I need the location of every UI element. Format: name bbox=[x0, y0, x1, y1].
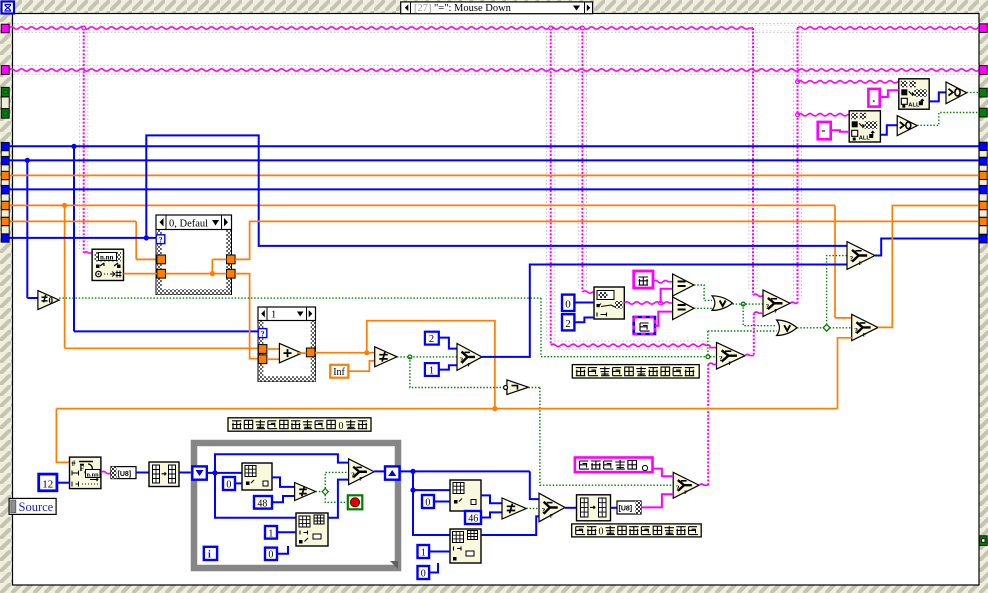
string constant WU (pink-bordered) bbox=[634, 271, 653, 288]
left edge tunnel: int (blue) y189 bbox=[1, 186, 9, 194]
left edge filler block 2 bbox=[1, 151, 9, 157]
case 0 right tunnel 2 (orange) bbox=[227, 269, 236, 278]
selection ants around vertical string wire x=83.7 bbox=[79, 32, 81, 249]
svg-text:46: 46 bbox=[468, 514, 478, 525]
numeric constant 0 (index) bbox=[223, 477, 235, 490]
wire: constant 0 to subset offset input bbox=[574, 302, 594, 304]
junction ring (707.9,356.7) branch up to OR U9 input bbox=[707, 331, 709, 357]
free label 'remove trailing zeros' above for-loop bbox=[228, 418, 371, 431]
case 0 left tunnel 1 (orange) bbox=[157, 255, 166, 264]
orange wire net y=221.4: left edge down into case structure 0 tunnel bbox=[9, 220, 136, 222]
case 0 right tunnel 1 (orange) bbox=[227, 255, 236, 264]
wire: U24 output to for-loop shift register bbox=[179, 472, 193, 474]
right edge tunnel: int y146 bbox=[979, 142, 987, 150]
Select node U11 bbox=[847, 242, 875, 270]
numeric constant 0 bbox=[422, 495, 434, 508]
left edge filler block 4 bbox=[1, 180, 9, 186]
Byte-Array-To-String node U34 bbox=[617, 501, 641, 514]
case 1 right tunnel (orange) bbox=[306, 348, 315, 357]
right edge tunnel: boolean out y92 bbox=[979, 88, 987, 97]
svg-text:1: 1 bbox=[429, 365, 434, 376]
wire: select U16 output up x=708.2 to select U10 bottom input bbox=[699, 484, 708, 485]
loop iteration terminal i bbox=[204, 547, 217, 560]
wire: constant 2 to subset length input bbox=[574, 318, 594, 323]
String-To-Byte-Array node U23 bbox=[111, 467, 136, 479]
numeric constant 0 (string subset offset) bbox=[562, 295, 574, 311]
svg-text:?: ? bbox=[766, 302, 770, 311]
wire: constant 0 to U32 bottom bbox=[429, 563, 438, 573]
orange wire net y=175.4 left edge to right edge bbox=[9, 174, 979, 176]
orange wire net y=205.4: left edge, branch x=64.6 down, ends down x=835 into select U12 top bbox=[9, 204, 835, 206]
numeric constant 0 bbox=[418, 566, 430, 579]
svg-text:0: 0 bbox=[268, 550, 273, 561]
Index-Array node U29 bbox=[450, 480, 481, 511]
wire: constant 48 to U26 bbox=[272, 496, 295, 502]
junction dot (74,146.3) bbox=[71, 144, 76, 149]
right edge tunnel: float y175 bbox=[979, 171, 987, 179]
svg-text:n.nn: n.nn bbox=[100, 254, 114, 262]
numeric constant 1 bbox=[265, 526, 277, 539]
wire: constant 0 to U25 bbox=[235, 482, 242, 484]
numeric constant 12 bbox=[39, 474, 57, 491]
event structure case label '[27] =: Mouse Down' bbox=[401, 2, 593, 14]
svg-text:0: 0 bbox=[421, 569, 426, 580]
svg-text:12: 12 bbox=[42, 478, 53, 490]
wire: constant 46 to U31 bbox=[481, 512, 502, 517]
Not node U8 (boolean invert) bbox=[507, 380, 529, 395]
svg-text:2: 2 bbox=[565, 318, 571, 330]
wire: U8 output right then down x=539.9 to select U16 middle input bbox=[528, 387, 540, 389]
wire: case 0 right tunnel 1 up to y=221.4 then right edge bbox=[235, 221, 979, 259]
Inf constant bbox=[330, 365, 348, 378]
Greater-Than-0 node U20 bbox=[946, 82, 967, 104]
svg-text:2: 2 bbox=[429, 334, 434, 345]
junction (797.5,81.8) branch to Search-Replace node U13 bbox=[796, 80, 800, 84]
Select node U6 bbox=[457, 344, 482, 371]
wire: U26 boolean out, diamond junction, to select U27 middle and stop terminal bbox=[316, 491, 326, 493]
svg-text:[U8]: [U8] bbox=[118, 471, 132, 478]
wire: U31 boolean output to select U30 middle bbox=[526, 507, 539, 509]
svg-text:1: 1 bbox=[271, 309, 276, 320]
free label 'cannot input while error message shown' bbox=[572, 365, 699, 378]
numeric constant 0 bbox=[265, 548, 277, 560]
Not-Equal node U5 bbox=[375, 347, 397, 367]
case 1 left tunnel 1 (orange) bbox=[258, 345, 267, 354]
blue wire net y=189.4 left edge to right edge bbox=[9, 188, 979, 190]
wire: U23 to Reverse-1D-Array U24 bbox=[136, 472, 149, 474]
junction dot (27.3,160.4) bbox=[25, 158, 30, 163]
selection ants around vertical string wire x=582.4 bbox=[577, 32, 579, 288]
Not-Equal-To-0 node U3 bbox=[38, 291, 59, 310]
Equal node U17 (top) bbox=[673, 274, 694, 296]
Not-Equal node U31 bbox=[502, 498, 526, 519]
free label 'show error when divisor is 0' bbox=[572, 524, 702, 537]
left edge filler block 3 bbox=[1, 165, 9, 171]
free label 'cannot divide by zero' (pink border) bbox=[575, 458, 653, 473]
wire: U28 output up to select U27 bottom input bbox=[328, 480, 349, 518]
Select node U27 bbox=[349, 459, 375, 485]
svg-text:?: ? bbox=[719, 354, 723, 363]
junction on string wire at (582.4,28) bbox=[581, 26, 585, 30]
case structure 1: label bar bbox=[258, 307, 316, 321]
wire: U21 boolean output up to right edge green terminal 2 bbox=[917, 113, 979, 126]
wire: case 1 output right, junction x=366.8 up over to x=494.9 down to orange bus bbox=[315, 352, 375, 354]
svg-text:ALL: ALL bbox=[859, 135, 871, 141]
left edge filler block 5 bbox=[1, 194, 9, 201]
empty string constant (lower) bbox=[818, 122, 831, 139]
wire: select U11 output up x=881.2 to right edge blue terminal bbox=[875, 239, 979, 256]
wire: orange bus down-left end x=56.4 into Format-Value node bbox=[56, 409, 69, 463]
wire: branch down x=74 to case structure 1 selector bbox=[73, 146, 75, 331]
selection ants around vertical string wire x=753 bbox=[748, 32, 750, 291]
svg-text:ALL: ALL bbox=[908, 103, 920, 109]
svg-text:48: 48 bbox=[257, 498, 267, 509]
junction dot (64.6,205.4) bbox=[62, 203, 67, 208]
svg-text:?: ? bbox=[676, 484, 680, 493]
wire: constant 0 to U29 bbox=[434, 501, 450, 503]
wire: select U27 output to right shift register bbox=[374, 470, 385, 472]
junction dot (494.9,408.6) bbox=[492, 406, 497, 411]
case structure 0-Default: frame bbox=[156, 215, 232, 295]
numeric constant 1 bbox=[418, 545, 430, 558]
empty string constant (upper) bbox=[868, 89, 879, 107]
case 1 selector terminal '?' bbox=[258, 329, 267, 338]
svg-text:i: i bbox=[208, 550, 211, 561]
wire: empty string to U14 input bbox=[831, 130, 850, 132]
svg-text:1: 1 bbox=[421, 548, 426, 559]
wire: orange bus y=408.6 across bottom bbox=[56, 408, 837, 410]
left edge tunnel: boolean (green) 1 bbox=[1, 87, 9, 96]
wire: scan node output (number) into case 0 left tunnel 2 bbox=[124, 273, 157, 275]
left edge tunnel: float (orange) y175 bbox=[1, 171, 9, 179]
wire: OR U19 output to select U7 middle, junction down to OR U9 top input bbox=[733, 303, 764, 305]
svg-text:?: ? bbox=[159, 235, 163, 244]
OR node U19 bbox=[712, 296, 733, 311]
wire: Format-Value string output to String-To-Byte-Array bbox=[101, 471, 111, 473]
Select node U12 bbox=[852, 314, 878, 340]
svg-text:?: ? bbox=[261, 329, 265, 338]
selection ants around string wire y=345 bbox=[554, 340, 712, 342]
wire: constant 0 to U28 bottom bbox=[277, 546, 288, 554]
svg-text:Source: Source bbox=[19, 500, 54, 514]
case 1 left tunnel 2 (orange) bbox=[258, 355, 267, 364]
wire: U17 output to OR U19 top input bbox=[694, 285, 712, 300]
string constant SHU (dashed-border) bbox=[634, 317, 655, 334]
numeric constant 46 bbox=[465, 511, 481, 524]
Index-Array node U25 bbox=[242, 463, 272, 490]
junction dot (146.3,237.9) bbox=[144, 235, 149, 240]
svg-text:0: 0 bbox=[565, 298, 571, 310]
right edge tunnel: boolean (unwired) y540 bbox=[979, 536, 987, 546]
svg-text:"=": Mouse Down: "=": Mouse Down bbox=[434, 3, 512, 14]
junction on string wire at (550.7,28) bbox=[549, 26, 553, 30]
left edge tunnel: boolean (green) 2 bbox=[1, 109, 9, 118]
wire: constant 12 to Format-Value input bbox=[57, 482, 70, 484]
wire: select U10 output up x=753.8 to select U7 bottom input bbox=[745, 354, 754, 355]
wire: select U6 output up x=529.8 right to select U11 bottom input bbox=[482, 265, 847, 357]
wire: SHU constant to lower Equal node input bbox=[655, 312, 673, 326]
wire: U14 output to Greater-Than-0 node U21 bbox=[880, 125, 897, 135]
right edge tunnel: int y238 bbox=[979, 234, 987, 243]
wire: string branch down at x=83.7 to Scan-Value node bbox=[83, 28, 85, 253]
selection ants around string wire y=28 bbox=[10, 23, 979, 25]
left edge tunnel: float (orange) y205 bbox=[1, 201, 9, 209]
while loop (thick gray frame) bbox=[194, 443, 398, 568]
left edge filler block 1 bbox=[1, 97, 9, 109]
svg-text:?: ? bbox=[460, 355, 464, 364]
wire: OR U9 output right, diamond junction x=826.6 up to select U11 middle and on to select U12 middle bbox=[797, 327, 852, 329]
left edge tunnel: string (magenta) y70 bbox=[1, 66, 9, 75]
wire: constant 1 to U32 bbox=[429, 551, 450, 553]
right edge filler 4 bbox=[979, 194, 987, 201]
svg-text:#: # bbox=[72, 459, 76, 468]
wire: string branch down at x=550.7 to select U10 top input bbox=[550, 28, 552, 345]
left edge tunnel: int (blue) y160 bbox=[1, 157, 9, 165]
svg-text:?: ? bbox=[850, 254, 854, 263]
wire: constant 1 to U28 bbox=[277, 531, 296, 533]
numeric constant 2 bbox=[425, 332, 439, 345]
wire: empty string to U13 input bbox=[880, 90, 899, 97]
wire: orange down x=835 to select U12 top input bbox=[834, 205, 836, 318]
wire: label output down to select U16 top input bbox=[653, 469, 674, 477]
wire: U34 string output up to select U16 bottom input bbox=[641, 494, 673, 507]
left edge filler block 7 bbox=[1, 226, 9, 234]
case 0 selector terminal '?' bbox=[156, 235, 165, 244]
String-Subset node U15 bbox=[594, 287, 624, 319]
shift register right (up arrow) bbox=[385, 466, 400, 479]
right edge filler 2 bbox=[979, 165, 987, 171]
wire: U32 output to select U30 bottom input bbox=[481, 516, 539, 535]
selection ants around vertical string wire x=797.5 bbox=[792, 32, 794, 299]
left edge tunnel: int (blue) y146 bbox=[1, 142, 9, 150]
right edge filler 5 bbox=[979, 210, 987, 217]
svg-text:F: F bbox=[80, 464, 85, 473]
svg-text:1: 1 bbox=[268, 528, 273, 539]
wire: WU constant to Equal node top input bbox=[653, 281, 673, 283]
left edge tunnel: string (magenta) y28 bbox=[1, 24, 9, 33]
svg-text:0: 0 bbox=[599, 527, 604, 538]
wire: constant 1 to select U6 bottom input bbox=[439, 365, 457, 369]
OR node U9 bbox=[777, 320, 797, 336]
numeric constant 1 bbox=[425, 363, 439, 376]
Reverse-1D-Array node U33 bbox=[577, 495, 611, 521]
Select node U30 bbox=[539, 493, 565, 522]
wire: select U12 output up x=892.3 to right edge orange terminal bbox=[878, 206, 979, 328]
right edge tunnel: string (magenta) y70 bbox=[979, 66, 987, 75]
svg-text:n.nn: n.nn bbox=[87, 471, 100, 478]
case structure 0-Default: label bar bbox=[156, 215, 232, 230]
wire: orange bus right end up x=837.5 to select U12 bottom input bbox=[838, 338, 852, 409]
right edge tunnel: float y205 bbox=[979, 201, 987, 209]
right edge tunnel: float y221 bbox=[979, 217, 987, 225]
wire: subset string output right with junction to both Equal nodes bbox=[624, 302, 672, 304]
wire: string branch down at x=582.4 to String-Subset input bbox=[581, 28, 583, 292]
right edge tunnel: string (magenta) y28 bbox=[979, 24, 987, 33]
svg-text:0: 0 bbox=[425, 498, 430, 509]
wire: orange branch down x=64.6 to case structure 1 tunnel bbox=[64, 205, 66, 349]
svg-text:0, Defaul: 0, Defaul bbox=[169, 218, 208, 229]
svg-text:0: 0 bbox=[49, 295, 54, 305]
wire: case 0 right tunnel 2 down x=249.6 to case 1 tunnel 2 bbox=[235, 274, 258, 359]
blue wire net y=146 left edge to right edge bbox=[9, 145, 979, 147]
blue wire net y=160.4 left edge to right edge bbox=[9, 159, 979, 161]
svg-text:[U8]: [U8] bbox=[619, 506, 633, 513]
Reverse-1D-Array node U24 bbox=[149, 462, 179, 487]
numeric constant 48 bbox=[254, 496, 272, 509]
Greater-Than-0 node U21 bbox=[897, 116, 917, 136]
wire: string main line turns down at x=753 to select U7 top input bbox=[752, 28, 754, 295]
wire: U13 output to Greater-Than-0 node U20 bbox=[929, 92, 946, 101]
wire: U18 output to OR U19 bottom input bbox=[694, 307, 712, 309]
right edge filler 3 bbox=[979, 180, 987, 186]
right edge tunnel: int y160 bbox=[979, 157, 987, 165]
wire: branch down x=27.3 to Not-Equal-0 node bbox=[26, 160, 28, 298]
junction dot (366.8,352.7) bbox=[364, 350, 369, 355]
wire: loop output bus with junctions feeding U29/U31 and select U30 top bbox=[400, 470, 530, 472]
svg-text:?: ? bbox=[542, 506, 546, 515]
Format-Value node U22 bbox=[70, 457, 101, 489]
left edge tunnel: int (blue) y238 bbox=[1, 234, 9, 242]
right edge tunnel: boolean out y112 bbox=[979, 108, 987, 117]
left edge filler block 6 bbox=[1, 210, 9, 217]
Equal node U18 (bottom) bbox=[673, 297, 694, 320]
wire: green boolean from U3 output across to x=541 down to y=356.7 and right bbox=[59, 297, 541, 299]
right edge tunnel: int y189 bbox=[979, 186, 987, 194]
wire: U25 output to Not-Equal U26 bbox=[272, 477, 295, 487]
svg-text:?: ? bbox=[854, 326, 858, 335]
right edge filler 1 bbox=[979, 151, 987, 158]
CJK char inside SHU constant bbox=[640, 323, 650, 331]
Add node U4 inside case 1 bbox=[267, 348, 279, 350]
wire: U33 to Byte-Array-To-String U34 bbox=[611, 507, 618, 509]
junction dot (212.3,273.6) bbox=[210, 271, 215, 276]
wire: U29 output to Not-Equal U31 bbox=[481, 495, 502, 503]
loop stop terminal (red circle) bbox=[348, 495, 363, 509]
wire: shift register to Index-Array U25 with branches up/down bbox=[207, 472, 242, 474]
Not-Equal node U26 bbox=[295, 483, 316, 501]
wire: add output to right tunnel bbox=[297, 352, 306, 354]
blue wire net y=237.9: left edge to case-0 selector, branch up x=146.3 over to select U11 top bbox=[9, 237, 156, 239]
Search-and-Replace-String node U13 bbox=[899, 79, 929, 109]
Scan-Value node U2 (string to number) bbox=[92, 249, 123, 280]
wire: case 0 internal from left tunnel 2 to right tunnels bbox=[166, 273, 227, 275]
case structure 1: frame bbox=[258, 307, 316, 382]
Select node U16 (divide-by-zero message select) bbox=[673, 472, 699, 498]
selection ants around vertical string wire x=550.7 bbox=[546, 32, 548, 341]
wire: U20 boolean output to right edge green terminal bbox=[967, 91, 979, 93]
svg-text:?: ? bbox=[351, 470, 355, 479]
wire: U5 boolean output to select U6 middle; junction down to Not node U8 bbox=[397, 356, 457, 358]
shift register left (down arrow) bbox=[192, 466, 207, 479]
wire: select U30 output to Reverse-1D-Array U33 bbox=[565, 507, 577, 509]
Select node U7 bbox=[763, 290, 790, 317]
svg-text:0: 0 bbox=[339, 421, 344, 432]
free label 'Source' bbox=[9, 498, 56, 514]
wire: select U7 output up x=797.5 to right edge terminal y=28 bbox=[790, 302, 798, 303]
event structure timeout terminal (hourglass) bbox=[2, 2, 15, 14]
wire: Inf to not-equal node U5 bbox=[348, 361, 374, 371]
Rotate-String node U32 bbox=[450, 529, 481, 563]
svg-text:Inf: Inf bbox=[333, 367, 345, 378]
junction on string wire at (83.7,28) bbox=[82, 26, 86, 30]
right edge filler 6 bbox=[979, 226, 987, 234]
case 0 left tunnel 2 (orange) bbox=[157, 269, 166, 278]
Search-and-Replace-String node U14 bbox=[849, 111, 880, 142]
svg-text:[27]: [27] bbox=[414, 3, 432, 14]
Rotate-String node U28 bbox=[296, 513, 328, 546]
wire: constant 2 to select U6 top input bbox=[439, 338, 457, 349]
string wire net: event data string 2 (y=70) left edge to right edge bbox=[9, 69, 979, 71]
left edge tunnel: float (orange) y221 bbox=[1, 217, 9, 225]
junction (797.5,114.7) branch to Search-Replace node U14 bbox=[796, 113, 800, 117]
selection ants around string wire y=70 bbox=[10, 65, 979, 67]
CJK char inside WU constant bbox=[639, 277, 649, 285]
svg-text:0: 0 bbox=[226, 480, 231, 491]
numeric constant 2 (string subset length) bbox=[562, 314, 574, 330]
Select node U10 bbox=[717, 342, 746, 369]
string wire net: event data string (y=28) from left edge bbox=[9, 27, 753, 29]
